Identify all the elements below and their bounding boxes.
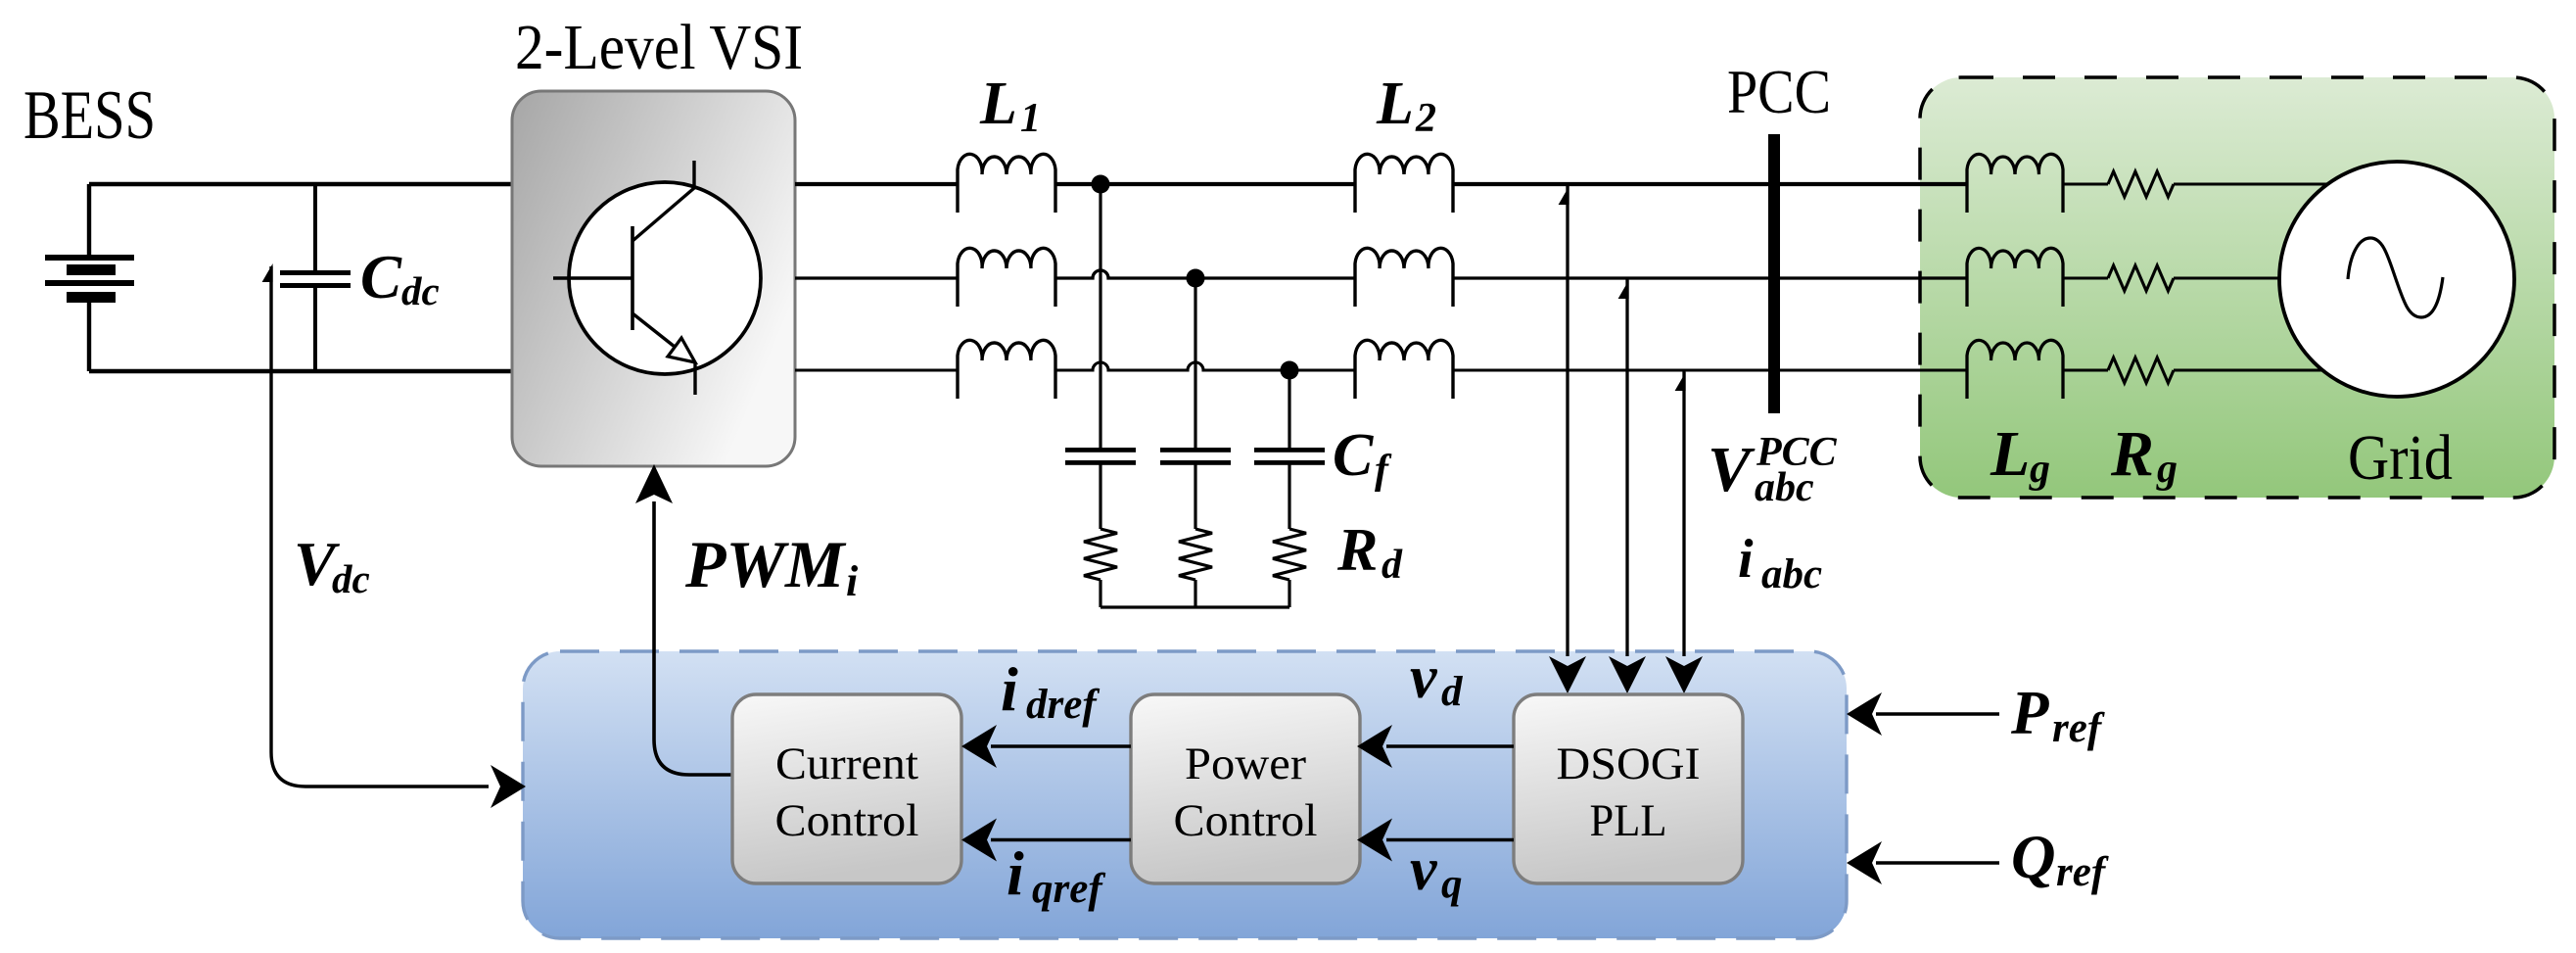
svg-text:Control: Control <box>775 795 919 846</box>
resistor Rd phase a <box>1084 529 1117 580</box>
svg-text:PCC: PCC <box>1727 58 1831 126</box>
wire v_d arrow <box>1386 744 1514 748</box>
svg-text:Power: Power <box>1185 739 1306 789</box>
inductor L1 phase B <box>958 248 1055 307</box>
svg-text:v: v <box>1410 644 1438 711</box>
wire Lg-Rg phase a <box>2063 182 2108 185</box>
wire Q_ref arrow <box>1876 861 1999 865</box>
control system box <box>523 651 1847 938</box>
grid voltage source G1 <box>2279 162 2514 397</box>
svg-text:ref: ref <box>2056 849 2109 895</box>
battery BESS <box>87 184 91 371</box>
wire sense line c <box>1682 370 1685 656</box>
wire phase B <box>795 270 1967 278</box>
svg-text:Q: Q <box>2011 823 2056 891</box>
node junction dot phase A <box>1092 175 1110 194</box>
svg-text:i: i <box>1007 838 1024 908</box>
inductor Lg phase b <box>1967 248 2063 307</box>
resistor Rd phase c <box>1273 529 1306 580</box>
svg-text:g: g <box>2029 447 2050 492</box>
inductor L2 phase B <box>1355 248 1453 307</box>
svg-text:2: 2 <box>1415 96 1436 141</box>
inductor L2 phase C <box>1355 340 1453 399</box>
svg-text:L: L <box>1990 418 2030 490</box>
svg-text:C: C <box>360 243 402 311</box>
PCC bus bar <box>1768 134 1780 413</box>
svg-text:dc: dc <box>401 268 440 313</box>
svg-text:d: d <box>1441 669 1464 715</box>
wire filter leg b <box>1194 278 1196 448</box>
svg-text:PLL: PLL <box>1590 795 1667 846</box>
capacitor Cdc <box>313 184 317 370</box>
inductor L2 phase A <box>1355 154 1453 213</box>
svg-text:L: L <box>979 71 1017 137</box>
wire DC+ top <box>89 182 512 186</box>
wire sense line b <box>1625 278 1628 656</box>
svg-text:DSOGI: DSOGI <box>1557 739 1701 789</box>
svg-text:g: g <box>2156 447 2178 492</box>
resistor Rg phase b <box>2108 265 2174 291</box>
svg-text:d: d <box>1382 543 1403 588</box>
svg-text:i: i <box>1001 654 1018 724</box>
svg-text:R: R <box>2110 418 2154 490</box>
inductor Lg phase c <box>1967 340 2063 399</box>
wire Rg-grid phase b <box>2174 276 2397 279</box>
svg-text:P: P <box>2010 679 2049 747</box>
block Current Control <box>732 694 961 883</box>
node junction dot phase C <box>1281 361 1299 380</box>
wire sense line a <box>1566 184 1569 656</box>
transistor symbol inside VSI <box>569 182 761 374</box>
Vdc sense arrow wire <box>271 266 489 786</box>
wire phase C <box>795 362 1967 370</box>
inductor L1 phase C <box>958 340 1055 399</box>
svg-text:1: 1 <box>1020 96 1041 141</box>
svg-text:q: q <box>1441 861 1463 907</box>
svg-text:Grid: Grid <box>2348 422 2453 494</box>
svg-text:i: i <box>1738 529 1754 590</box>
svg-text:abc: abc <box>1755 465 1814 510</box>
inductor L1 phase A <box>958 154 1055 213</box>
wire v_q arrow <box>1386 838 1514 842</box>
svg-text:PWM: PWM <box>684 527 847 601</box>
wire P_ref arrow <box>1876 712 1999 716</box>
svg-text:L: L <box>1376 71 1414 137</box>
resistor Rd phase b <box>1179 529 1212 580</box>
inductor Lg phase a <box>1967 154 2063 213</box>
svg-text:V: V <box>1708 434 1756 505</box>
wire filter leg c <box>1288 370 1290 448</box>
wire PWM signal <box>654 501 732 775</box>
wire i_dref arrow <box>991 744 1131 748</box>
svg-text:abc: abc <box>1761 551 1822 597</box>
resistor Rg phase a <box>2108 171 2174 197</box>
resistor Rg phase c <box>2108 357 2174 383</box>
svg-text:dc: dc <box>332 556 370 601</box>
svg-text:qref: qref <box>1032 866 1105 912</box>
wire Rg-grid phase c <box>2174 368 2397 371</box>
capacitor Cf phase c <box>1254 448 1325 453</box>
capacitor Cf phase a <box>1065 448 1136 453</box>
svg-text:dref: dref <box>1026 682 1100 728</box>
wire filter bottom bus <box>1101 605 1289 608</box>
svg-text:Control: Control <box>1174 795 1318 846</box>
svg-text:R: R <box>1336 517 1378 584</box>
wire filter leg a <box>1099 184 1101 448</box>
svg-text:ref: ref <box>2052 705 2105 751</box>
wire i_qref arrow <box>991 838 1131 842</box>
svg-text:BESS: BESS <box>23 77 156 154</box>
svg-text:i: i <box>846 557 859 605</box>
grid network box <box>1920 77 2554 498</box>
block Power Control <box>1131 694 1360 883</box>
svg-text:2-Level VSI: 2-Level VSI <box>515 12 803 83</box>
2-Level VSI converter block U1 <box>512 91 795 466</box>
wire DC- bottom <box>89 369 512 373</box>
svg-text:v: v <box>1410 836 1438 903</box>
wire Rg-grid phase a <box>2174 182 2397 185</box>
wire phase A <box>795 182 1967 186</box>
wire Lg-Rg phase b <box>2063 276 2108 279</box>
svg-text:C: C <box>1333 422 1374 489</box>
node junction dot phase B <box>1187 269 1205 288</box>
wire Lg-Rg phase c <box>2063 368 2108 371</box>
capacitor Cf phase b <box>1160 448 1231 453</box>
svg-text:Current: Current <box>775 739 918 789</box>
block DSOGI PLL <box>1514 694 1743 883</box>
